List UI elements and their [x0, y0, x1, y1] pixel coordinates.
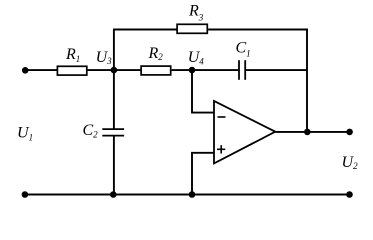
wire: U3 down to C2 top plate	[113, 70, 115, 129]
op-amp non-inverting input plus sign	[217, 145, 225, 153]
wire: R2 to node U4	[172, 69, 192, 71]
wire: U3 up to top feedback rail	[113, 30, 115, 71]
wire: top rail left segment to R3	[113, 29, 177, 31]
wire: input to R1	[25, 69, 57, 71]
wire: C2 bottom plate down to ground rail	[113, 136, 115, 195]
op-amp U (triangle)	[214, 101, 275, 163]
node U3 junction dot	[111, 67, 118, 74]
node: C2 ground junction dot	[110, 191, 117, 198]
wire: non-inverting input horizontal	[191, 152, 214, 154]
wire: inverting input horizontal	[191, 112, 214, 114]
capacitor C1	[239, 60, 245, 80]
wire: R1 to node U3	[88, 69, 114, 71]
wire: op-amp output to right terminal	[275, 131, 349, 133]
resistor R2	[141, 66, 171, 75]
wire: U4 to C1 left plate	[192, 69, 239, 71]
wire: U4 down to inverting input	[191, 70, 193, 113]
resistor R3	[177, 24, 207, 33]
node: output junction dot (feedback tap)	[304, 129, 311, 136]
op-amp inverting input minus sign	[218, 116, 226, 118]
resistor R1	[57, 66, 86, 75]
capacitor C2	[102, 129, 124, 136]
wire: bottom ground rail	[25, 194, 350, 196]
bottom-right terminal	[346, 191, 353, 198]
wire: U3 to R2	[114, 69, 141, 71]
node: op-amp ground junction dot	[189, 191, 196, 198]
wire: feedback vertical down to output node	[306, 29, 308, 132]
bottom-left terminal	[22, 191, 29, 198]
wire: C1 right plate to feedback vertical	[245, 69, 307, 71]
node U4 junction dot	[189, 67, 196, 74]
wire: non-inverting input down to ground rail	[191, 153, 193, 195]
wire: top rail right segment from R3 to right corner	[208, 29, 308, 31]
input terminal (U1 top)	[22, 67, 29, 74]
output terminal (U2 top)	[346, 129, 353, 136]
